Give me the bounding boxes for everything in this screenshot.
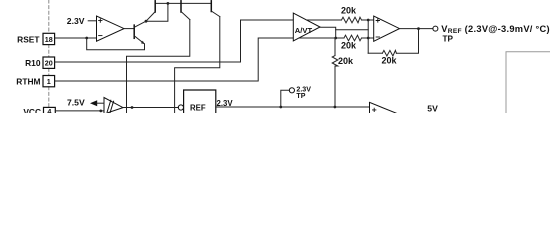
resistor 20k feedback xyxy=(368,29,418,66)
node dot TP riser xyxy=(279,106,282,109)
svg-text:REF: REF xyxy=(190,103,206,112)
svg-text:TP: TP xyxy=(296,92,305,100)
transistor QB (mirror output 1) xyxy=(181,1,190,20)
resistor 20k top (to non-inverting input) xyxy=(307,5,374,23)
wire RSET to op-amp inverting input xyxy=(55,37,97,39)
wire op-amp A1 output to Q1 base xyxy=(124,28,134,30)
resistor 20k bottom (to inverting input) xyxy=(299,35,374,50)
label 7.5V with arrow xyxy=(67,98,104,108)
op-amp U3 (partial, bottom right) xyxy=(370,102,398,113)
pin RSET 18 xyxy=(17,33,54,44)
svg-text:20k: 20k xyxy=(382,56,398,66)
A/VT amplifier block xyxy=(293,13,320,41)
svg-text:A/VT: A/VT xyxy=(295,26,313,35)
svg-text:18: 18 xyxy=(45,35,53,44)
wire 2.3V to op-amp non-inverting input xyxy=(88,20,96,22)
svg-text:4: 4 xyxy=(47,107,51,113)
node dot Q1 collector xyxy=(145,20,148,23)
svg-text:20: 20 xyxy=(45,59,53,68)
svg-text:2.3V: 2.3V xyxy=(67,16,85,26)
svg-text:VREF (2.3V@-3.9mV/ °C): VREF (2.3V@-3.9mV/ °C) xyxy=(441,24,550,35)
wire QC collector down and left xyxy=(175,17,220,113)
wire Q1 collector to mirror base rail xyxy=(146,3,168,21)
terminal VREF xyxy=(433,26,438,31)
node dot at op-amp - input xyxy=(367,37,370,40)
wire gray corner right xyxy=(506,52,550,113)
node dot mirror base rail xyxy=(167,2,170,5)
node dot at op-amp + input xyxy=(367,19,370,22)
shunt regulator zener triangle xyxy=(104,98,123,114)
node dot feedback tap xyxy=(417,27,420,30)
wire vertical junction + input node to feedback xyxy=(367,20,369,53)
wire QB collector down and left xyxy=(127,20,190,114)
current mirror base rail xyxy=(155,2,211,4)
svg-text:1: 1 xyxy=(47,77,51,86)
bottom 2.3V rail left segment xyxy=(123,107,178,109)
svg-text:R10: R10 xyxy=(25,58,41,68)
wire output cross-route to op-amp inverting node xyxy=(336,29,369,31)
svg-text:2.3V: 2.3V xyxy=(217,99,234,108)
svg-text:7.5V: 7.5V xyxy=(67,98,85,108)
label VREF xyxy=(441,24,550,43)
wire A/VT output xyxy=(320,27,336,38)
IC boundary dashed line xyxy=(48,0,50,107)
wire RTHM to A/VT lower input xyxy=(55,38,294,81)
wire U2 output to VREF terminal xyxy=(400,28,433,30)
node dot at 20k tap xyxy=(334,37,337,40)
op-amp U2 xyxy=(374,16,400,41)
node dot 20k divider xyxy=(334,106,337,109)
svg-text:VCC: VCC xyxy=(23,107,41,113)
wire VCC to shunt regulator xyxy=(55,110,104,112)
node dot VCC wire xyxy=(99,110,102,113)
wire R10 to A/VT upper input xyxy=(55,20,294,62)
pin R10 20 xyxy=(25,57,54,68)
wire Q1 emitter feedback to inverting input xyxy=(87,38,145,50)
test point 2.3V TP xyxy=(281,86,311,108)
pin RTHM 1 xyxy=(16,76,54,87)
transistor QA (diode-connected, left of mirror) xyxy=(146,1,155,21)
svg-text:20k: 20k xyxy=(338,56,354,66)
transistor QC (mirror output 2) xyxy=(211,1,220,17)
pin VCC 4 xyxy=(23,107,55,117)
op-amp A1 xyxy=(97,16,125,41)
svg-text:20k: 20k xyxy=(341,41,357,51)
svg-text:TP: TP xyxy=(443,34,454,43)
node dot RSET feedback xyxy=(85,37,88,40)
svg-text:5V: 5V xyxy=(427,104,438,113)
svg-text:RTHM: RTHM xyxy=(16,76,40,86)
svg-text:20k: 20k xyxy=(341,5,357,15)
node dot on rail xyxy=(131,106,134,109)
REF block xyxy=(178,90,216,114)
bottom 2.3V rail right segment xyxy=(216,106,370,108)
svg-text:RSET: RSET xyxy=(17,35,40,45)
resistor 20k vertical (output divider) xyxy=(332,38,354,107)
transistor Q1 xyxy=(134,21,146,44)
